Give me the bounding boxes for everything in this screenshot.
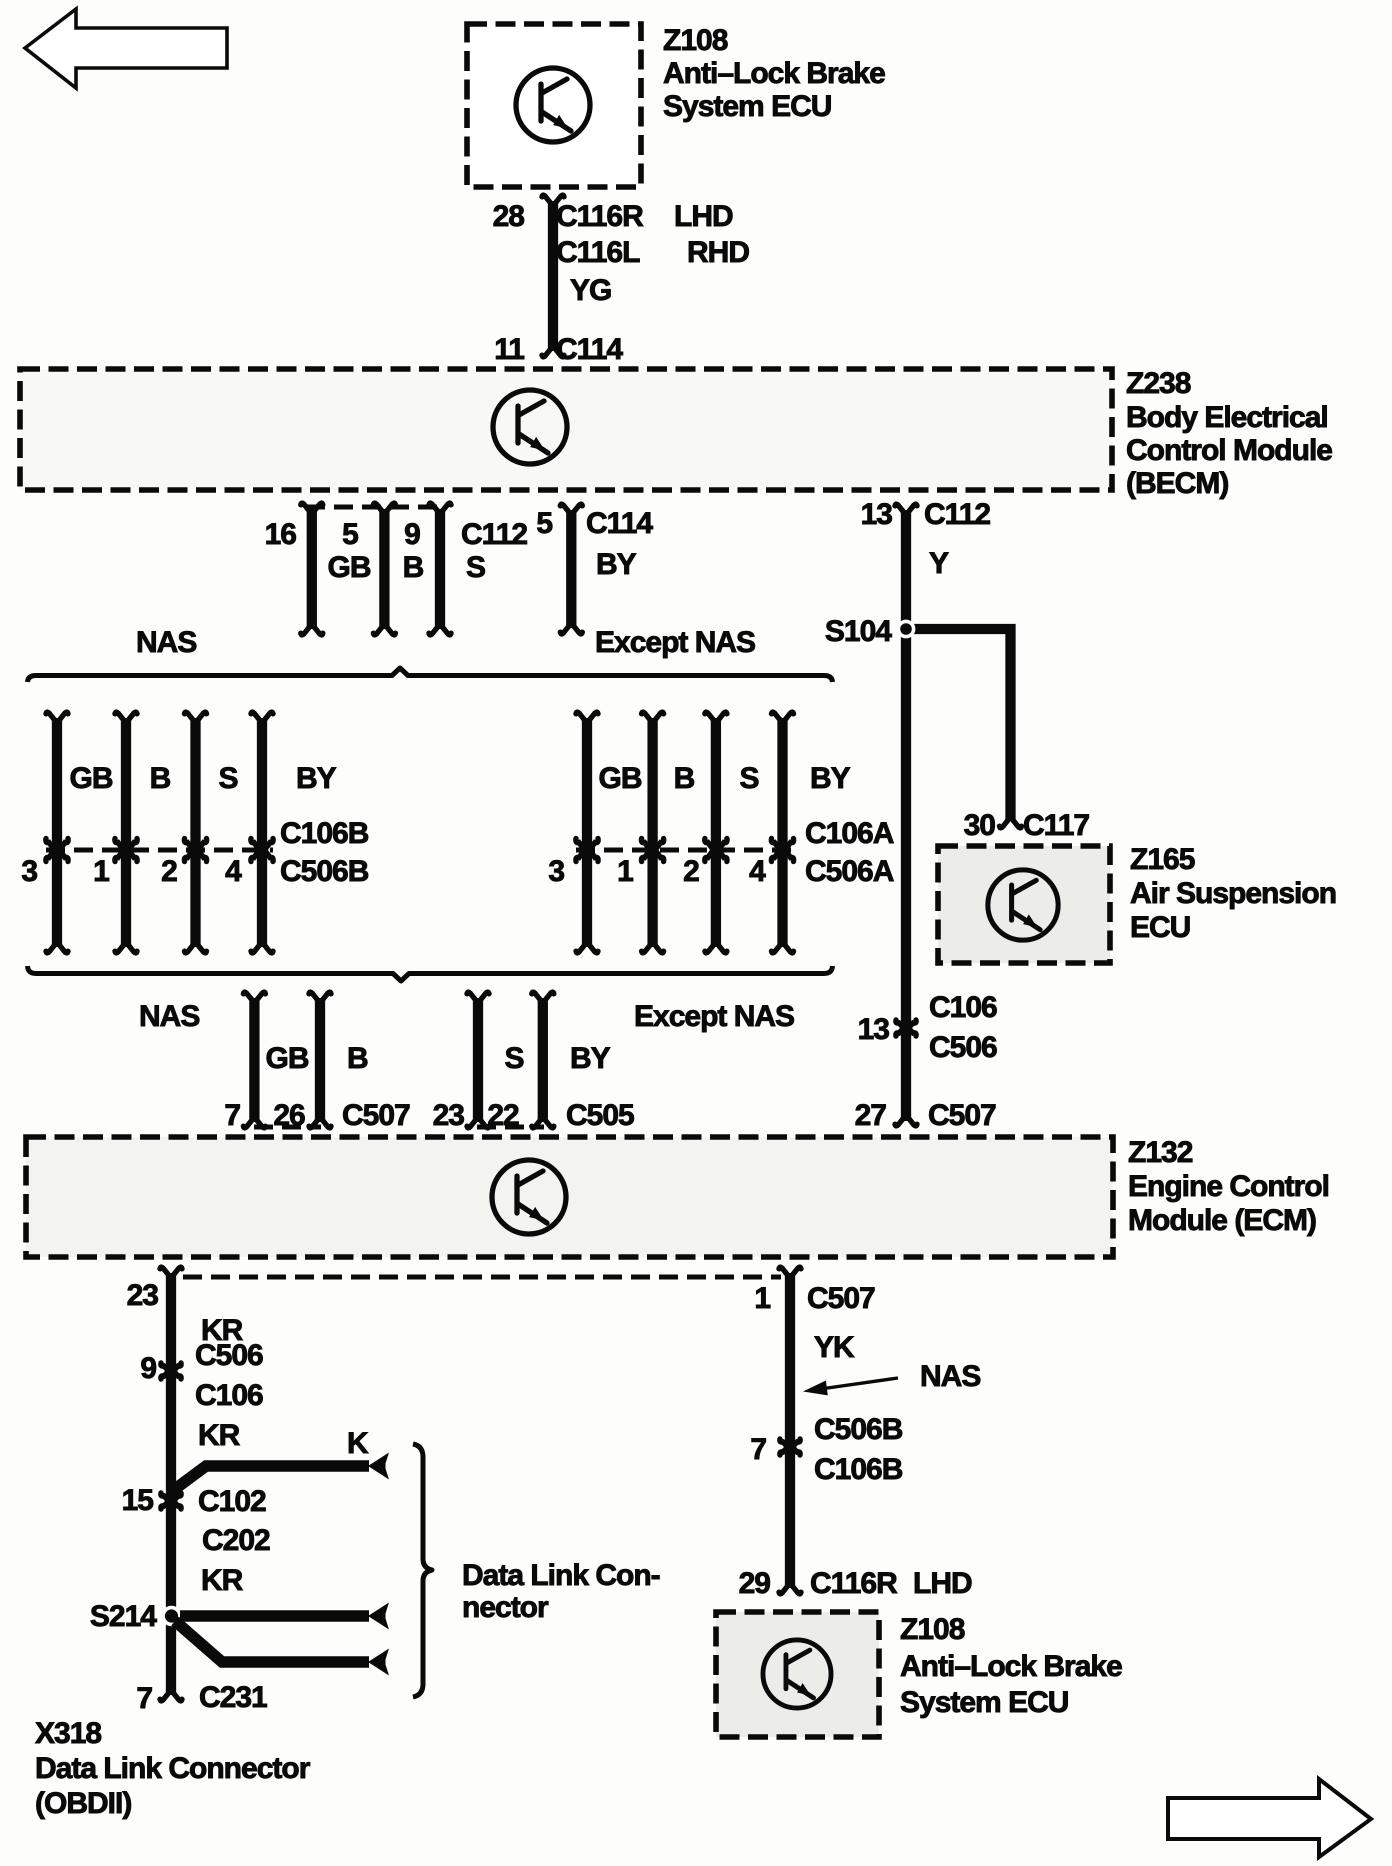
svg-text:C506: C506	[929, 1031, 997, 1064]
svg-text:22: 22	[487, 1099, 519, 1132]
wire YK from ECM pin 1 C507 to Z108 pin 29	[779, 1267, 801, 1594]
svg-text:LHD: LHD	[674, 200, 733, 233]
svg-text:B: B	[150, 762, 171, 795]
wire B Except-NAS group	[641, 712, 663, 953]
svg-text:C106A: C106A	[805, 817, 894, 850]
svg-text:Module (ECM): Module (ECM)	[1128, 1204, 1316, 1237]
svg-text:Engine Control: Engine Control	[1128, 1170, 1329, 1203]
svg-text:C505: C505	[566, 1099, 634, 1132]
svg-text:3: 3	[548, 855, 564, 888]
connector C507 dashed tie	[254, 1125, 321, 1130]
svg-text:30: 30	[964, 809, 996, 842]
ECU symbol U-Z132	[492, 1160, 566, 1234]
svg-text:K: K	[347, 1427, 369, 1460]
labels 29 C116R LHD	[739, 1567, 972, 1600]
labels NAS / Except NAS above groups	[136, 626, 755, 659]
svg-text:nector: nector	[462, 1591, 549, 1624]
svg-text:YG: YG	[570, 274, 611, 307]
wire B NAS group	[115, 712, 137, 953]
svg-text:Z238: Z238	[1126, 367, 1191, 400]
svg-text:BY: BY	[810, 762, 851, 795]
previous-page arrow (top-left)	[25, 9, 227, 88]
svg-text:Z132: Z132	[1128, 1136, 1193, 1169]
svg-text:Z108: Z108	[663, 24, 728, 57]
svg-text:NAS: NAS	[136, 626, 196, 659]
svg-text:Anti–Lock Brake: Anti–Lock Brake	[663, 57, 885, 90]
svg-text:13: 13	[858, 1013, 890, 1046]
svg-text:15: 15	[122, 1484, 154, 1517]
labels C106B C506B	[280, 817, 369, 888]
svg-text:5: 5	[342, 518, 358, 551]
svg-text:System ECU: System ECU	[663, 90, 831, 123]
svg-text:C106B: C106B	[280, 817, 369, 850]
svg-text:YK: YK	[814, 1331, 855, 1364]
svg-text:BY: BY	[596, 548, 637, 581]
wire B pin26 to ECM	[309, 992, 331, 1128]
svg-text:3: 3	[21, 855, 37, 888]
svg-text:NAS: NAS	[139, 1000, 199, 1033]
wire S NAS group	[184, 712, 206, 953]
svg-text:C506B: C506B	[280, 855, 369, 888]
svg-text:C106B: C106B	[814, 1453, 903, 1486]
pins 3 1 2 4 right	[548, 855, 766, 888]
svg-text:9: 9	[140, 1352, 156, 1385]
svg-text:9: 9	[404, 518, 420, 551]
svg-text:KR: KR	[201, 1564, 244, 1597]
svg-text:Data Link Con-: Data Link Con-	[462, 1559, 660, 1592]
labels right group GB B S BY	[599, 762, 851, 795]
svg-text:2: 2	[683, 855, 699, 888]
svg-text:C507: C507	[928, 1099, 996, 1132]
splice node S214	[90, 1600, 180, 1633]
svg-text:C112: C112	[924, 498, 990, 531]
svg-text:7: 7	[750, 1433, 766, 1466]
svg-text:Body Electrical: Body Electrical	[1126, 401, 1328, 434]
svg-text:C116L: C116L	[556, 236, 640, 269]
svg-text:Except NAS: Except NAS	[634, 1000, 794, 1033]
right brace Data Link Connector	[413, 1444, 432, 1697]
svg-text:ECU: ECU	[1130, 911, 1190, 944]
wire YG from Z108 pin 28 to BECM pin 11	[542, 195, 564, 357]
svg-text:C114: C114	[556, 333, 623, 366]
svg-text:BY: BY	[570, 1042, 611, 1075]
svg-text:C507: C507	[807, 1282, 875, 1315]
svg-text:23: 23	[127, 1279, 159, 1312]
wire S214 to DLC middle pin	[180, 1603, 389, 1630]
ECU symbol U-Z108 top (transistor in circle)	[516, 68, 590, 142]
label Z165	[1130, 843, 1336, 944]
connector C112 dashed tie line	[306, 505, 446, 510]
svg-text:BY: BY	[296, 762, 337, 795]
ECU symbol U-Z165	[988, 870, 1058, 940]
module Z132 ECM dashed box	[26, 1137, 1113, 1257]
svg-text:C506: C506	[195, 1339, 263, 1372]
svg-text:C507: C507	[342, 1099, 410, 1132]
svg-text:C106: C106	[195, 1379, 263, 1412]
connector tie dashed line below ECM pins 23 and 1	[183, 1275, 781, 1280]
label KR mid	[198, 1419, 241, 1452]
svg-text:Anti–Lock Brake: Anti–Lock Brake	[900, 1650, 1122, 1683]
labels C106A C506A	[805, 817, 894, 888]
svg-text:C116R: C116R	[556, 200, 644, 233]
NAS pointer arrow	[803, 1360, 980, 1395]
svg-text:NAS: NAS	[920, 1360, 980, 1393]
svg-text:Air Suspension: Air Suspension	[1130, 877, 1336, 910]
svg-text:B: B	[674, 762, 695, 795]
svg-text:16: 16	[265, 518, 297, 551]
under-brace NAS / Except NAS (bottom)	[28, 966, 833, 981]
svg-text:7: 7	[224, 1099, 240, 1132]
svg-text:LHD: LHD	[913, 1567, 972, 1600]
labels 13 C112 Y	[861, 498, 991, 580]
svg-text:C506B: C506B	[814, 1413, 903, 1446]
svg-text:Z108: Z108	[900, 1613, 965, 1646]
svg-text:23: 23	[433, 1099, 465, 1132]
over-brace NAS / Except NAS (top)	[28, 668, 833, 682]
svg-text:KR: KR	[198, 1419, 241, 1452]
labels GB B S BY lower	[266, 1042, 611, 1075]
connector break 15 C102/C202	[122, 1484, 270, 1557]
svg-text:GB: GB	[599, 762, 642, 795]
module Z238 BECM dashed box	[20, 369, 1112, 490]
wire S Except-NAS group	[705, 712, 727, 953]
connector C106B/C506B dashed tie line	[46, 848, 273, 853]
label Z238 BECM	[1126, 367, 1332, 500]
ECU Z108 Anti-Lock Brake System dashed box (top)	[467, 24, 641, 187]
connector break 13 C106/C506	[858, 991, 997, 1064]
pins 3 1 2 4 left	[21, 855, 242, 888]
svg-text:4: 4	[749, 855, 766, 888]
svg-text:GB: GB	[70, 762, 113, 795]
svg-text:13: 13	[861, 498, 893, 531]
svg-text:4: 4	[225, 855, 242, 888]
svg-text:27: 27	[855, 1099, 887, 1132]
svg-text:X318: X318	[35, 1717, 101, 1750]
label Z108 bottom	[900, 1613, 1122, 1719]
svg-text:Data Link Connector: Data Link Connector	[35, 1752, 311, 1785]
svg-text:C116R: C116R	[810, 1567, 898, 1600]
wire BY Except-NAS group	[771, 712, 793, 953]
svg-text:C102: C102	[198, 1485, 266, 1518]
svg-text:S: S	[504, 1042, 523, 1075]
svg-text:RHD: RHD	[687, 236, 749, 269]
label KR lower	[201, 1564, 244, 1597]
labels 16 5 9 C112 GB B S	[265, 518, 528, 584]
svg-text:C231: C231	[199, 1681, 267, 1714]
svg-text:Z165: Z165	[1130, 843, 1195, 876]
wire KR from ECM pin 23 to DLC pin 7 C231	[160, 1267, 182, 1701]
svg-text:GB: GB	[266, 1042, 309, 1075]
svg-text:S214: S214	[90, 1600, 157, 1633]
labels 23 KR	[127, 1279, 244, 1347]
svg-text:Control Module: Control Module	[1126, 434, 1332, 467]
svg-text:C202: C202	[202, 1524, 270, 1557]
splice node S104	[825, 615, 914, 648]
wire GB NAS group	[46, 712, 68, 953]
labels 7 26 C507 23 22 C505	[224, 1099, 634, 1132]
ECU Z108 Anti-Lock Brake System dashed box (bottom)	[716, 1612, 879, 1737]
ECU Z165 Air Suspension dashed box	[938, 846, 1110, 963]
svg-text:26: 26	[273, 1099, 305, 1132]
wire C112 pin5 stub	[373, 503, 395, 635]
svg-text:1: 1	[754, 1282, 770, 1315]
svg-text:28: 28	[493, 200, 525, 233]
wire GB pin7 to ECM	[243, 992, 265, 1128]
connector C106A/C506A dashed tie line	[576, 848, 794, 853]
label Z108 top	[663, 24, 885, 123]
ECU symbol U-Z238 (transistor in circle)	[493, 390, 567, 464]
svg-text:(BECM): (BECM)	[1126, 467, 1228, 500]
svg-text:7: 7	[136, 1682, 152, 1715]
svg-text:C106: C106	[929, 991, 997, 1024]
wire GB Except-NAS group	[576, 712, 598, 953]
wire C112 pin16 stub	[301, 503, 323, 635]
wire branch from S104 to Z165 pin 30 C117	[906, 629, 1022, 828]
label Data Link Connector (brace)	[462, 1559, 660, 1624]
next-page arrow (bottom-right)	[1168, 1779, 1371, 1857]
wire BY from BECM pin 5 connector C114	[560, 504, 582, 634]
svg-text:C114: C114	[586, 507, 653, 540]
svg-text:S104: S104	[825, 615, 892, 648]
svg-text:C112: C112	[461, 518, 527, 551]
svg-text:System ECU: System ECU	[900, 1686, 1068, 1719]
labels left group GB B S BY	[70, 762, 337, 795]
svg-text:B: B	[403, 551, 424, 584]
svg-text:1: 1	[93, 855, 109, 888]
wire C112 pin9 stub	[429, 503, 451, 635]
wire S214 to DLC lower pin	[175, 1621, 389, 1676]
svg-text:GB: GB	[328, 551, 371, 584]
pin/connector labels C116R C116L YG C114	[493, 200, 750, 366]
svg-text:S: S	[739, 762, 758, 795]
connector C505 dashed tie	[477, 1125, 544, 1130]
wire BY pin22 to ECM	[532, 992, 554, 1128]
label X318 Data Link Connector (OBDII)	[35, 1717, 311, 1820]
svg-text:C506A: C506A	[805, 855, 894, 888]
wire S pin23 to ECM	[467, 992, 489, 1128]
svg-text:(OBDII): (OBDII)	[35, 1787, 131, 1820]
label Z132 ECM	[1128, 1136, 1329, 1237]
labels 7 C231	[136, 1681, 267, 1715]
svg-text:C117: C117	[1023, 809, 1089, 842]
svg-text:S: S	[466, 551, 485, 584]
svg-text:1: 1	[617, 855, 633, 888]
svg-text:29: 29	[739, 1567, 771, 1600]
svg-text:5: 5	[536, 507, 552, 540]
labels 1 C507 YK	[754, 1282, 875, 1364]
svg-text:Y: Y	[929, 547, 949, 580]
svg-text:S: S	[218, 762, 237, 795]
labels 30 C117	[964, 809, 1090, 842]
svg-text:B: B	[347, 1042, 368, 1075]
svg-text:11: 11	[494, 333, 524, 366]
svg-text:2: 2	[161, 855, 177, 888]
ECU symbol U-Z108 bottom	[763, 1640, 831, 1708]
label K	[347, 1427, 369, 1460]
labels NAS / Except NAS below groups	[139, 1000, 794, 1033]
svg-text:Except NAS: Except NAS	[595, 626, 755, 659]
labels 27 C507	[855, 1099, 996, 1132]
labels 5 C114 BY	[536, 507, 653, 581]
connector break 7 C506B/C106B	[750, 1413, 902, 1486]
connector break 9 C506/C106	[140, 1339, 263, 1412]
wire K branch to data link connector	[171, 1453, 389, 1493]
wire Y from BECM pin 13 C112 down to ECM pin 27 C507	[895, 504, 917, 1126]
wire BY NAS group	[251, 712, 273, 953]
